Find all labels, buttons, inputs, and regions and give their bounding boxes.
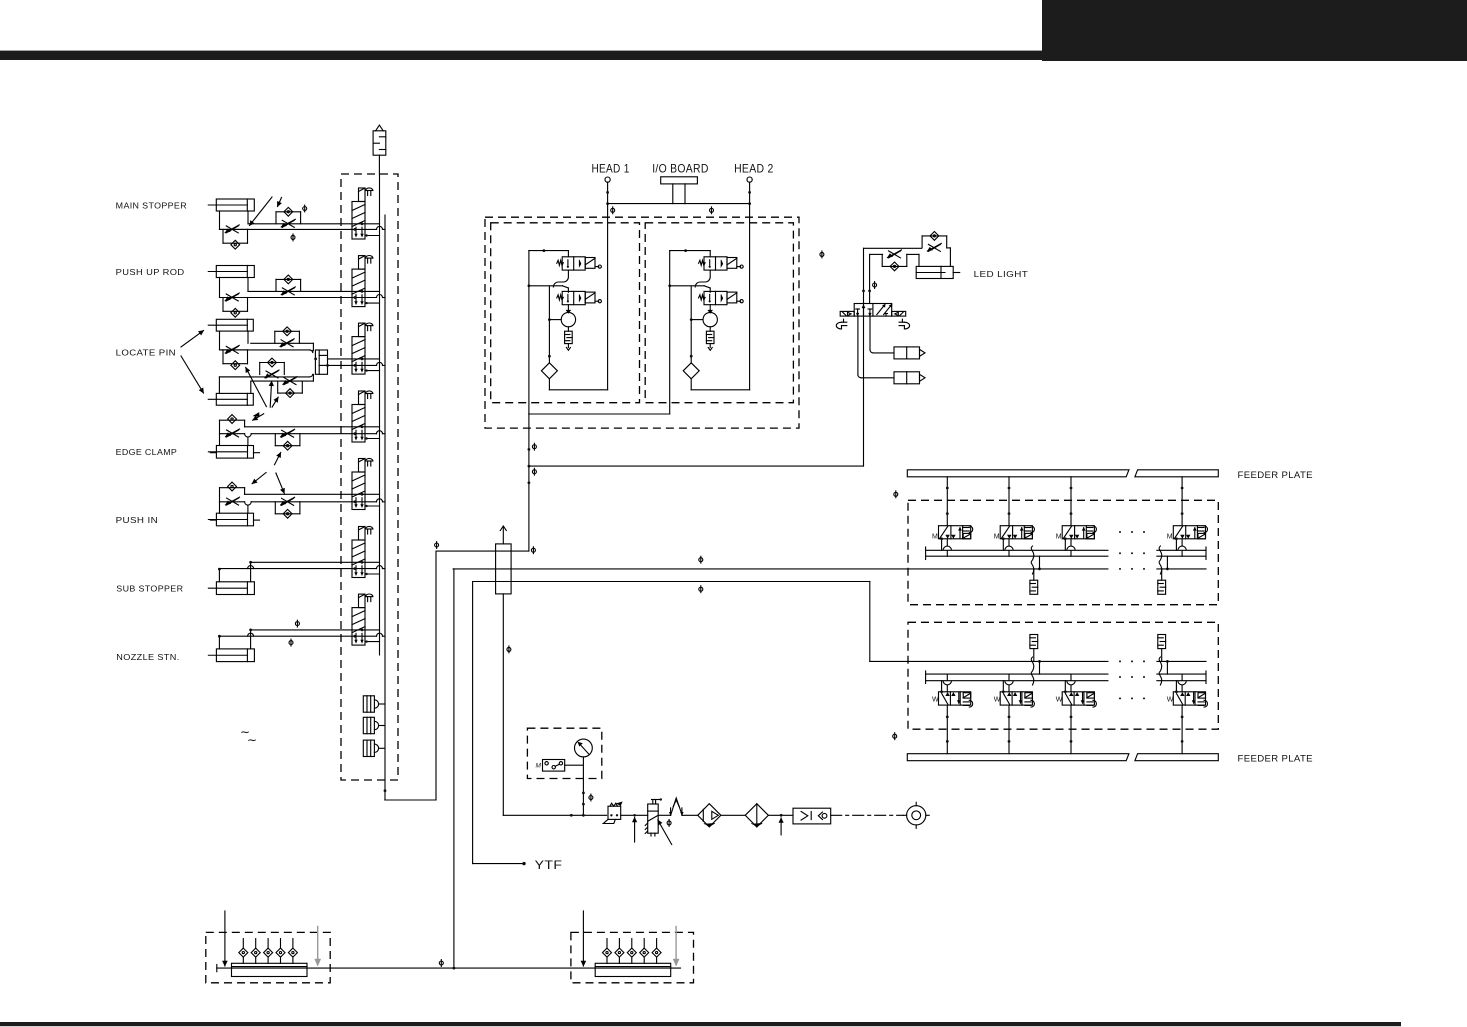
svg-text:M: M xyxy=(1167,534,1173,541)
svg-text:HEAD 2: HEAD 2 xyxy=(734,162,774,176)
svg-text:PUSH IN: PUSH IN xyxy=(116,515,159,525)
svg-text:M: M xyxy=(536,763,542,770)
svg-text:FEEDER PLATE: FEEDER PLATE xyxy=(1238,754,1313,765)
svg-text:I/O BOARD: I/O BOARD xyxy=(652,162,709,176)
svg-text:EDGE CLAMP: EDGE CLAMP xyxy=(116,447,178,457)
svg-text:PUSH UP ROD: PUSH UP ROD xyxy=(116,267,185,277)
svg-text:HEAD 1: HEAD 1 xyxy=(592,162,630,176)
svg-text:M: M xyxy=(932,534,938,541)
svg-text:LOCATE PIN: LOCATE PIN xyxy=(116,348,176,358)
svg-text:∼: ∼ xyxy=(247,733,257,747)
svg-text:M: M xyxy=(994,534,1000,541)
svg-text:M: M xyxy=(1056,534,1062,541)
svg-text:FEEDER PLATE: FEEDER PLATE xyxy=(1238,470,1313,481)
svg-text:NOZZLE STN.: NOZZLE STN. xyxy=(116,652,179,662)
svg-text:MAIN STOPPER: MAIN STOPPER xyxy=(116,201,187,211)
svg-text:SUB STOPPER: SUB STOPPER xyxy=(116,584,183,594)
svg-text:LED LIGHT: LED LIGHT xyxy=(974,269,1029,279)
svg-text:YTF: YTF xyxy=(535,858,563,872)
